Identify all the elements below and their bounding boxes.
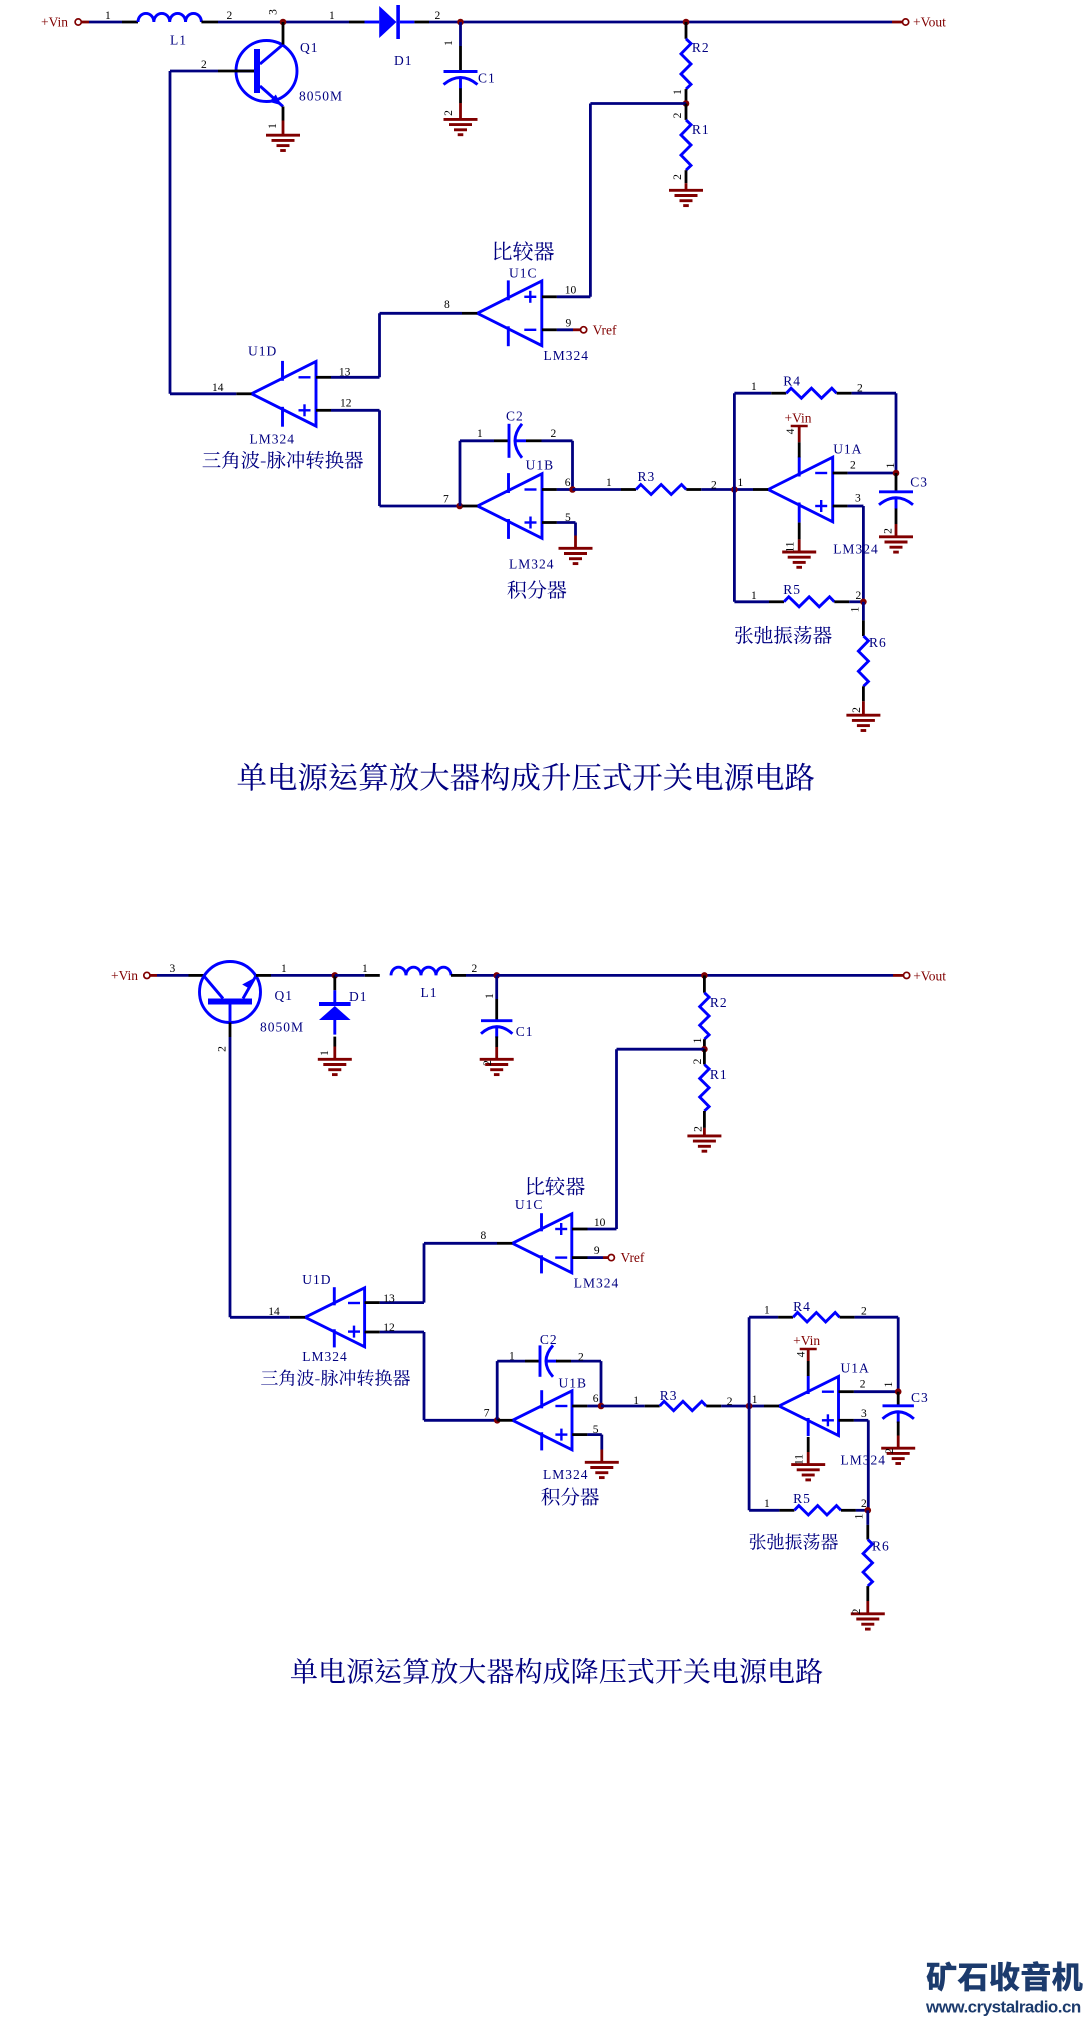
svg-text:4: 4 — [785, 428, 797, 434]
svg-text:1: 1 — [329, 10, 335, 22]
svg-text:R3: R3 — [638, 469, 656, 484]
svg-text:2: 2 — [672, 112, 684, 118]
svg-text:L1: L1 — [421, 985, 438, 1000]
svg-text:LM324: LM324 — [833, 542, 879, 557]
svg-text:Vref: Vref — [621, 1250, 645, 1265]
svg-text:3: 3 — [170, 963, 176, 975]
svg-text:1: 1 — [319, 1050, 331, 1056]
svg-text:1: 1 — [850, 606, 862, 612]
svg-text:U1B: U1B — [526, 458, 555, 473]
svg-text:8: 8 — [481, 1230, 487, 1242]
svg-text:U1B: U1B — [559, 1376, 588, 1391]
svg-text:R4: R4 — [793, 1299, 811, 1314]
svg-text:2: 2 — [861, 1306, 867, 1318]
svg-text:Vref: Vref — [593, 322, 617, 337]
svg-text:2: 2 — [727, 1396, 733, 1408]
svg-text:LM324: LM324 — [509, 557, 555, 572]
svg-text:2: 2 — [860, 1379, 866, 1391]
svg-text:C1: C1 — [516, 1024, 534, 1039]
svg-text:1: 1 — [883, 1381, 895, 1387]
svg-text:11: 11 — [785, 541, 797, 552]
svg-text:R2: R2 — [710, 995, 728, 1010]
svg-text:2: 2 — [693, 1126, 705, 1132]
svg-text:12: 12 — [383, 1322, 395, 1334]
svg-text:Q1: Q1 — [275, 988, 294, 1003]
svg-text:7: 7 — [443, 494, 449, 506]
svg-text:LM324: LM324 — [841, 1452, 887, 1467]
svg-text:+Vin: +Vin — [793, 1333, 820, 1348]
svg-text:R4: R4 — [783, 374, 801, 389]
svg-text:U1C: U1C — [509, 266, 538, 281]
svg-text:2: 2 — [482, 1060, 494, 1066]
svg-text:2: 2 — [857, 383, 863, 395]
svg-text:14: 14 — [268, 1306, 280, 1318]
svg-text:2: 2 — [851, 707, 863, 713]
svg-text:1: 1 — [267, 123, 279, 129]
svg-text:2: 2 — [883, 528, 895, 534]
svg-text:5: 5 — [593, 1424, 599, 1436]
svg-text:8050M: 8050M — [260, 1020, 304, 1035]
svg-text:www.crystalradio.cn: www.crystalradio.cn — [925, 1997, 1081, 2016]
svg-text:2: 2 — [217, 1046, 229, 1052]
svg-text:12: 12 — [340, 398, 352, 410]
svg-text:1: 1 — [692, 1037, 704, 1043]
svg-text:2: 2 — [472, 963, 478, 975]
svg-text:9: 9 — [594, 1245, 600, 1257]
svg-text:2: 2 — [551, 428, 557, 440]
svg-text:C1: C1 — [478, 71, 496, 86]
svg-text:1: 1 — [751, 590, 757, 602]
svg-text:U1A: U1A — [841, 1360, 870, 1375]
svg-text:R6: R6 — [869, 635, 887, 650]
svg-text:+Vout: +Vout — [913, 15, 946, 30]
svg-text:R5: R5 — [793, 1491, 811, 1506]
svg-text:1: 1 — [443, 40, 455, 46]
svg-text:1: 1 — [751, 381, 757, 393]
svg-text:2: 2 — [856, 590, 862, 602]
svg-text:2: 2 — [851, 1608, 863, 1614]
svg-text:D1: D1 — [394, 53, 413, 68]
svg-text:LM324: LM324 — [544, 348, 590, 363]
svg-text:LM324: LM324 — [250, 432, 296, 447]
svg-text:1: 1 — [764, 1498, 770, 1510]
svg-text:LM324: LM324 — [302, 1349, 348, 1364]
svg-text:3: 3 — [855, 493, 861, 505]
svg-text:U1D: U1D — [248, 344, 277, 359]
svg-text:8050M: 8050M — [299, 89, 343, 104]
svg-text:LM324: LM324 — [543, 1467, 589, 1482]
svg-text:+Vin: +Vin — [41, 15, 68, 30]
svg-text:D1: D1 — [349, 989, 368, 1004]
svg-text:2: 2 — [861, 1498, 867, 1510]
svg-text:13: 13 — [339, 366, 351, 378]
svg-text:C2: C2 — [540, 1332, 558, 1347]
svg-text:6: 6 — [593, 1393, 599, 1405]
svg-text:3: 3 — [268, 9, 280, 15]
svg-text:R1: R1 — [710, 1067, 728, 1082]
svg-text:LM324: LM324 — [574, 1276, 620, 1291]
svg-text:2: 2 — [578, 1352, 584, 1364]
svg-text:9: 9 — [566, 317, 572, 329]
svg-text:1: 1 — [672, 89, 684, 95]
svg-text:14: 14 — [212, 382, 224, 394]
svg-text:R5: R5 — [783, 582, 801, 597]
svg-text:1: 1 — [362, 963, 368, 975]
svg-text:L1: L1 — [170, 33, 187, 48]
svg-text:C3: C3 — [911, 1390, 929, 1405]
svg-text:1: 1 — [477, 428, 483, 440]
svg-text:1: 1 — [509, 1351, 515, 1363]
svg-text:U1A: U1A — [833, 442, 862, 457]
svg-text:10: 10 — [565, 284, 577, 296]
svg-text:1: 1 — [885, 462, 897, 468]
svg-text:R1: R1 — [692, 122, 710, 137]
svg-text:13: 13 — [383, 1293, 395, 1305]
svg-text:2: 2 — [201, 59, 207, 71]
svg-text:R2: R2 — [692, 40, 710, 55]
svg-text:+Vin: +Vin — [111, 968, 138, 983]
svg-text:2: 2 — [443, 110, 455, 116]
svg-text:1: 1 — [105, 10, 111, 22]
svg-text:U1D: U1D — [302, 1272, 331, 1287]
svg-text:1: 1 — [854, 1513, 866, 1519]
svg-text:8: 8 — [444, 299, 450, 311]
svg-text:2: 2 — [850, 460, 856, 472]
svg-text:2: 2 — [227, 10, 233, 22]
svg-text:2: 2 — [672, 174, 684, 180]
svg-text:2: 2 — [711, 480, 717, 492]
svg-text:1: 1 — [764, 1304, 770, 1316]
svg-text:C2: C2 — [506, 409, 524, 424]
svg-text:R3: R3 — [660, 1388, 678, 1403]
svg-text:1: 1 — [606, 477, 612, 489]
svg-text:1: 1 — [738, 477, 744, 489]
svg-text:+Vin: +Vin — [785, 411, 812, 426]
svg-text:11: 11 — [794, 1454, 806, 1465]
svg-text:+Vout: +Vout — [913, 968, 946, 983]
svg-text:1: 1 — [484, 993, 496, 999]
svg-text:C3: C3 — [910, 475, 928, 490]
svg-text:5: 5 — [565, 512, 571, 524]
svg-text:10: 10 — [594, 1217, 606, 1229]
svg-text:1: 1 — [633, 1395, 639, 1407]
svg-text:6: 6 — [565, 477, 571, 489]
svg-text:R6: R6 — [872, 1539, 890, 1554]
svg-text:3: 3 — [861, 1408, 867, 1420]
svg-text:2: 2 — [884, 1448, 896, 1454]
svg-text:2: 2 — [435, 10, 441, 22]
svg-text:Q1: Q1 — [300, 40, 319, 55]
svg-text:U1C: U1C — [515, 1197, 544, 1212]
svg-text:1: 1 — [281, 963, 287, 975]
svg-text:2: 2 — [692, 1058, 704, 1064]
svg-text:7: 7 — [484, 1408, 490, 1420]
svg-text:4: 4 — [796, 1351, 808, 1357]
svg-text:1: 1 — [752, 1394, 758, 1406]
